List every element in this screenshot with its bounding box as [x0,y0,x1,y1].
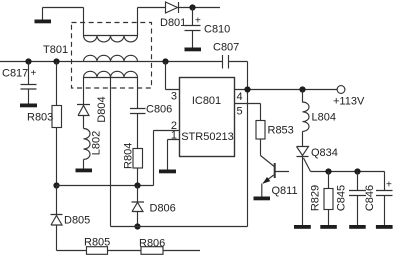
terminal +113V [337,86,345,94]
inductor L802 [84,129,91,169]
pin 4 wire [235,89,338,91]
transformer T801 secondary winding [84,55,138,61]
svg-text:1: 1 [171,129,177,141]
pin 5 wire [235,104,261,121]
ground under C810 [185,48,202,52]
pin 1 wire [168,140,180,170]
capacitor C845 [349,172,366,226]
wire gate rail [311,172,385,191]
capacitor C846 [376,191,393,226]
wire tertiary right lead [137,78,139,109]
node pin4/C807 [244,86,250,92]
svg-text:+: + [386,180,392,191]
node R829 tap [325,168,331,174]
diode D801 [166,2,179,13]
svg-text:C817: C817 [2,68,28,80]
node R803 tap [53,58,59,64]
svg-text:C846: C846 [364,185,376,211]
capacitor C810 [185,8,201,48]
svg-text:D806: D806 [150,203,176,215]
resistor R829 [328,172,330,226]
svg-text:R803: R803 [27,112,53,124]
resistor R804 [133,149,143,169]
svg-text:C845: C845 [335,185,347,211]
diode D805 [51,186,63,251]
wire tertiary center tap [110,78,112,227]
node D801/C810 [189,4,195,10]
ground top-left [35,20,52,24]
ground under C845 [349,225,366,229]
ground under Q834 [294,225,311,229]
wire bottom line [57,250,201,252]
svg-text:4: 4 [237,91,243,103]
node L804 tap [299,86,305,92]
wire top rail [43,7,221,9]
op IC801 [180,78,235,157]
ground under R829 [320,225,337,229]
svg-text:+113V: +113V [333,96,365,108]
wire ground lead top-left [42,8,44,20]
node y185 left [53,182,59,188]
wire main B+ line [0,62,248,227]
svg-text:3: 3 [171,91,177,103]
svg-text:T801: T801 [43,44,68,56]
capacitor C807 [223,55,229,69]
pin 2 wire [154,131,180,186]
svg-text:C806: C806 [146,104,172,116]
svg-text:+: + [195,16,201,27]
resistor R806 [141,247,163,255]
capacitor C817 [21,62,37,104]
svg-text:5: 5 [237,106,243,118]
svg-text:D801: D801 [160,17,186,29]
svg-text:STR50213: STR50213 [181,131,234,143]
inductor L804 [303,90,309,147]
svg-text:IC801: IC801 [192,95,221,107]
resistor R805 [87,247,108,255]
capacitor C806 [130,109,146,149]
svg-text:L804: L804 [312,112,336,124]
wire node y185 [57,185,154,187]
diode D804 [77,105,90,129]
transformer T801 primary winding [84,8,138,42]
pin 3 wire [166,62,180,90]
transistor Q811 [261,156,290,197]
svg-text:R853: R853 [268,125,294,137]
node pin3 tap [162,58,168,64]
ground under Q811 [254,197,271,201]
svg-text:Q811: Q811 [272,185,298,197]
ground pin 1 [159,170,176,174]
svg-text:D804: D804 [96,96,108,122]
node D806 bottom [134,223,140,229]
node C845 tap [354,168,360,174]
thyristor Q834 [297,147,311,226]
svg-text:+: + [31,68,37,79]
resistor R853 [256,121,265,140]
ground under L802 [76,169,93,173]
resistor R803 [56,62,58,186]
svg-text:R829: R829 [309,185,321,211]
ground under C846 [376,225,393,229]
transformer T801 dashed box [72,23,152,89]
diode D806 [132,186,145,227]
svg-text:Q834: Q834 [311,147,338,159]
ground under C817 [20,104,37,108]
svg-text:D805: D805 [64,215,90,227]
node R804 bottom [134,182,140,188]
node C817 tap [25,58,31,64]
wire y226 [111,226,248,228]
svg-text:C807: C807 [213,42,239,54]
svg-text:R806: R806 [139,238,165,250]
svg-text:R804: R804 [122,143,134,169]
svg-text:L802: L802 [91,131,103,155]
svg-text:R805: R805 [84,237,110,249]
svg-text:C810: C810 [204,24,230,36]
transformer T801 tertiary winding [84,71,138,77]
wire tertiary left lead [83,78,85,105]
